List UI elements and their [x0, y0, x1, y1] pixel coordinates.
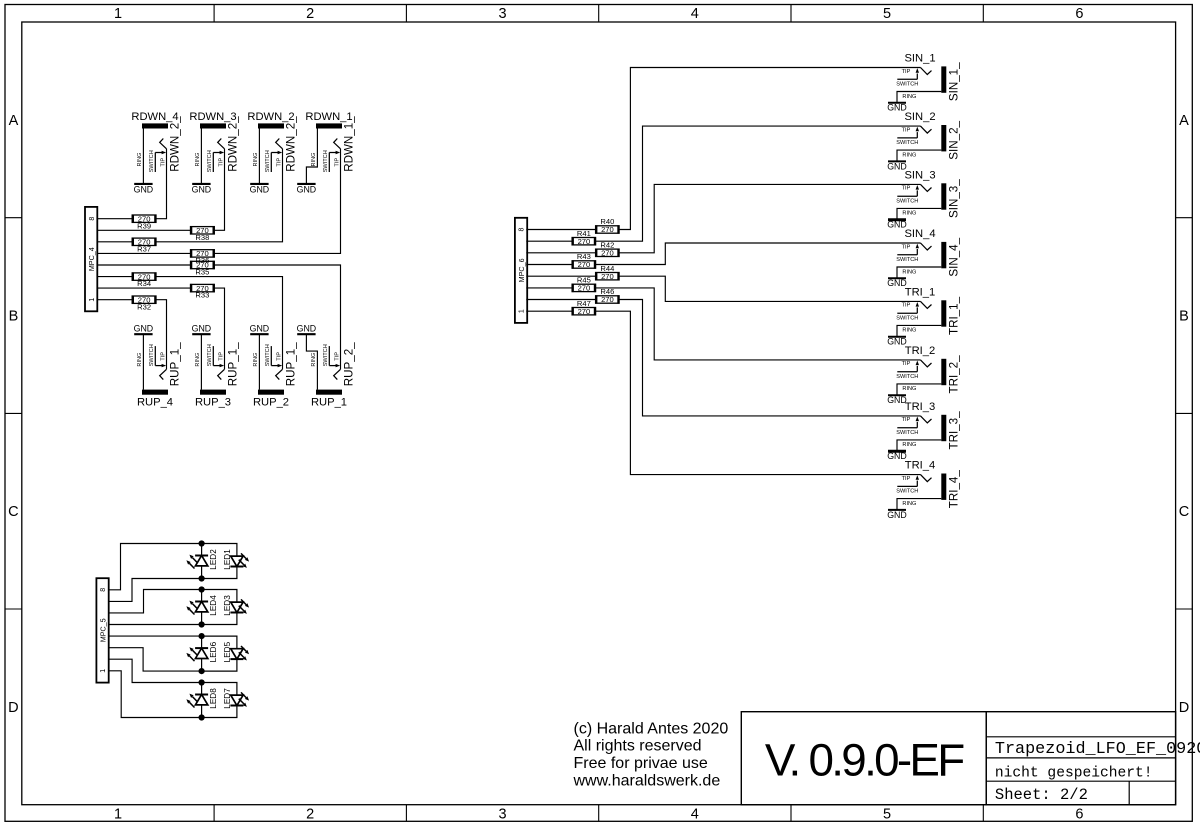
- svg-text:6: 6: [1075, 806, 1083, 822]
- svg-text:TRI_1: TRI_1: [905, 286, 935, 298]
- LED LED6: [186, 641, 218, 662]
- wire MPC_5 pin 1 to LED pair: [109, 671, 202, 718]
- svg-text:SWITCH: SWITCH: [323, 344, 329, 366]
- svg-text:RING: RING: [902, 211, 916, 217]
- svg-text:TRI_3: TRI_3: [905, 401, 935, 413]
- svg-text:TIP: TIP: [902, 361, 911, 367]
- wire MPC_5 pin 7 to LED pair: [109, 579, 202, 602]
- node LED pair 2 bottom junction: [199, 621, 205, 627]
- wire R37 to jack tip: [156, 149, 283, 242]
- svg-text:LED4: LED4: [209, 595, 218, 616]
- svg-text:SWITCH: SWITCH: [896, 489, 918, 495]
- svg-text:RING: RING: [253, 353, 259, 367]
- svg-text:270: 270: [138, 214, 151, 223]
- svg-text:270: 270: [138, 272, 151, 281]
- wire R34 to jack tip: [156, 277, 283, 370]
- svg-text:270: 270: [196, 284, 209, 293]
- svg-text:R41: R41: [577, 229, 591, 238]
- wire R42 to jack: [619, 184, 920, 252]
- ground RDWN_1: [297, 183, 315, 185]
- svg-text:SWITCH: SWITCH: [207, 150, 213, 172]
- resistor R35: [191, 261, 215, 277]
- svg-text:SWITCH: SWITCH: [149, 344, 155, 366]
- svg-text:GND: GND: [250, 185, 270, 195]
- svg-text:LED6: LED6: [209, 641, 218, 662]
- svg-text:6: 6: [1075, 6, 1083, 22]
- wire MPC_4 pin 3 to R34: [97, 276, 132, 278]
- wire R32 to jack tip: [156, 300, 167, 370]
- wire R35 to jack tip: [214, 265, 340, 369]
- wire R44 to jack: [619, 276, 920, 301]
- resistor R39: [132, 214, 156, 230]
- LED LED1: [223, 549, 249, 570]
- svg-text:SWITCH: SWITCH: [896, 140, 918, 146]
- LED LED5: [223, 641, 249, 662]
- jack RDWN_2: [247, 111, 297, 195]
- wire R45 to jack: [596, 288, 921, 360]
- svg-text:C: C: [8, 504, 18, 520]
- svg-text:1: 1: [89, 298, 96, 302]
- title block right box: [986, 712, 1175, 805]
- wire MPC_5 pin 3 to LED pair: [109, 648, 202, 671]
- svg-text:SWITCH: SWITCH: [896, 257, 918, 263]
- svg-text:270: 270: [601, 225, 614, 234]
- jack TRI_1: [887, 286, 960, 346]
- svg-text:LED8: LED8: [209, 688, 218, 709]
- resistor R36: [191, 249, 215, 265]
- svg-text:D: D: [1179, 700, 1189, 716]
- title block version box: [741, 712, 986, 805]
- svg-text:LED3: LED3: [223, 595, 232, 616]
- svg-text:GND: GND: [134, 324, 154, 334]
- svg-text:R46: R46: [600, 287, 614, 296]
- wire MPC_4 pin 6 to R37: [97, 241, 132, 243]
- jack RDWN_4: [131, 111, 181, 195]
- resistor R40: [596, 217, 620, 234]
- svg-text:270: 270: [578, 284, 591, 293]
- svg-text:GND: GND: [297, 185, 317, 195]
- svg-text:270: 270: [578, 260, 591, 269]
- svg-text:TIP: TIP: [218, 158, 224, 167]
- svg-text:270: 270: [196, 226, 209, 235]
- svg-text:TRI_4: TRI_4: [905, 460, 935, 472]
- svg-text:SWITCH: SWITCH: [265, 344, 271, 366]
- svg-text:TIP: TIP: [334, 352, 340, 361]
- wire MPC_5 pin 5 to LED pair: [109, 624, 202, 626]
- wire MPC_6 pin 7 to R41: [526, 240, 572, 242]
- jack TRI_3: [887, 401, 960, 461]
- resistor R33: [191, 284, 215, 300]
- svg-text:R42: R42: [600, 241, 614, 250]
- svg-text:B: B: [1179, 309, 1189, 325]
- wire LED LED4 vertical: [201, 590, 203, 602]
- svg-text:www.haraldswerk.de: www.haraldswerk.de: [573, 773, 721, 790]
- svg-text:4: 4: [691, 806, 699, 822]
- LED LED3: [223, 595, 249, 616]
- resistor R34: [132, 272, 156, 288]
- svg-text:MPC_4: MPC_4: [87, 247, 96, 271]
- svg-text:TIP: TIP: [160, 158, 166, 167]
- svg-text:RUP_1_: RUP_1_: [285, 342, 298, 386]
- wire MPC_6 pin 8 to R40: [526, 229, 595, 231]
- ground TRI_4: [888, 509, 906, 511]
- svg-text:4: 4: [691, 6, 699, 22]
- svg-text:SWITCH: SWITCH: [207, 344, 213, 366]
- wire LED LED8 vertical: [201, 683, 203, 695]
- svg-text:270: 270: [138, 238, 151, 247]
- svg-text:LED1: LED1: [223, 549, 232, 570]
- svg-text:SWITCH: SWITCH: [265, 150, 271, 172]
- svg-text:SIN_4: SIN_4: [904, 228, 935, 240]
- wire MPC_4 pin 2 to R33: [97, 287, 190, 289]
- ground SIN_2: [888, 160, 906, 162]
- svg-text:1: 1: [114, 6, 122, 22]
- svg-text:TIP: TIP: [902, 69, 911, 75]
- LED LED4: [186, 595, 218, 616]
- svg-text:TRI_2: TRI_2: [905, 345, 935, 357]
- svg-text:SWITCH: SWITCH: [149, 150, 155, 172]
- wire R39 to jack tip: [156, 149, 167, 219]
- wire MPC_6 pin 3 to R45: [526, 287, 572, 289]
- node LED pair 4 bottom junction: [199, 714, 205, 720]
- resistor R41: [572, 229, 596, 246]
- svg-text:2: 2: [306, 806, 314, 822]
- ground RDWN_3: [192, 183, 210, 185]
- svg-text:RING: RING: [902, 328, 916, 334]
- svg-text:nicht gespeichert!: nicht gespeichert!: [995, 766, 1153, 782]
- frame column dividers: [213, 5, 215, 23]
- ground TRI_1: [888, 336, 906, 338]
- wire MPC_6 pin 5 to R43: [526, 264, 572, 266]
- svg-text:270: 270: [578, 237, 591, 246]
- wire MPC_6 pin 2 to R46: [526, 299, 595, 301]
- resistor R44: [596, 264, 620, 281]
- resistor R43: [572, 252, 596, 269]
- connector MPC_5: [96, 578, 108, 682]
- svg-text:R40: R40: [600, 217, 614, 226]
- wire MPC_5 pin 6 to LED pair: [109, 590, 202, 613]
- node LED pair 1 top junction: [199, 540, 205, 546]
- svg-text:C: C: [1179, 504, 1189, 520]
- wire R38 to jack tip: [214, 149, 224, 231]
- svg-text:TIP: TIP: [276, 352, 282, 361]
- wire MPC_4 pin 1 to R32: [97, 299, 132, 301]
- ground RUP_4: [134, 333, 152, 335]
- svg-text:LED5: LED5: [223, 641, 232, 662]
- jack TRI_2: [887, 345, 960, 405]
- wire MPC_4 pin 4 to R35: [97, 264, 190, 266]
- svg-text:RING: RING: [311, 353, 317, 367]
- svg-text:RING: RING: [902, 152, 916, 158]
- svg-text:SWITCH: SWITCH: [323, 150, 329, 172]
- wire MPC_6 pin 1 to R47: [526, 310, 572, 312]
- ground TRI_2: [888, 394, 906, 396]
- svg-text:Free for privae use: Free for privae use: [574, 755, 708, 772]
- ground RDWN_4: [134, 183, 152, 185]
- svg-text:R43: R43: [577, 252, 591, 261]
- node LED pair 2 top junction: [199, 586, 205, 592]
- ground RUP_3: [192, 333, 210, 335]
- wire R46 to jack: [619, 300, 920, 416]
- wire MPC_5 pin 2 to LED pair: [109, 659, 202, 682]
- svg-text:RING: RING: [902, 501, 916, 507]
- svg-text:GND: GND: [887, 510, 907, 520]
- node LED pair 3 bottom junction: [199, 668, 205, 674]
- svg-text:GND: GND: [192, 324, 212, 334]
- svg-text:270: 270: [601, 295, 614, 304]
- svg-text:270: 270: [601, 272, 614, 281]
- svg-text:SWITCH: SWITCH: [896, 430, 918, 436]
- svg-text:5: 5: [883, 806, 891, 822]
- svg-text:RING: RING: [195, 353, 201, 367]
- wire R47 to jack: [596, 311, 921, 474]
- svg-text:SIN_1: SIN_1: [904, 53, 935, 65]
- svg-text:TIP: TIP: [160, 352, 166, 361]
- svg-text:B: B: [9, 309, 19, 325]
- svg-text:270: 270: [196, 249, 209, 258]
- node LED pair 3 top junction: [199, 633, 205, 639]
- svg-text:SIN_2_: SIN_2_: [948, 120, 961, 159]
- wire LED pair 2 branch: [202, 590, 237, 603]
- ground SIN_4: [888, 277, 906, 279]
- svg-text:SIN_4_: SIN_4_: [948, 237, 961, 276]
- resistor R32: [132, 295, 156, 311]
- svg-text:RDWN_2_: RDWN_2_: [227, 116, 240, 172]
- svg-text:A: A: [1179, 113, 1189, 129]
- svg-text:TRI_3_: TRI_3_: [948, 411, 961, 450]
- svg-text:D: D: [8, 700, 18, 716]
- svg-text:RING: RING: [311, 153, 317, 167]
- jack SIN_4: [887, 228, 960, 288]
- svg-text:TRI_1_: TRI_1_: [948, 296, 961, 335]
- svg-text:1: 1: [114, 806, 122, 822]
- svg-text:8: 8: [519, 227, 526, 231]
- svg-text:MPC_5: MPC_5: [99, 618, 108, 642]
- svg-text:A: A: [9, 113, 19, 129]
- svg-text:TIP: TIP: [902, 186, 911, 192]
- ground TRI_3: [888, 450, 906, 453]
- svg-text:RDWN_2_: RDWN_2_: [285, 116, 298, 172]
- LED LED2: [186, 549, 218, 570]
- svg-text:GND: GND: [250, 324, 270, 334]
- node LED pair 1 bottom junction: [199, 575, 205, 581]
- svg-text:V. 0.9.0-EF: V. 0.9.0-EF: [765, 734, 964, 785]
- wire MPC_6 pin 4 to R44: [526, 275, 595, 277]
- svg-text:8: 8: [89, 217, 96, 221]
- svg-text:8: 8: [100, 588, 107, 592]
- wire LED pair 4 branch: [202, 683, 237, 696]
- ground RDWN_2: [250, 183, 268, 185]
- jack SIN_1: [887, 53, 960, 113]
- wire R33 to jack tip: [214, 288, 224, 369]
- svg-text:Sheet: 2/2: Sheet: 2/2: [995, 786, 1088, 804]
- svg-text:RING: RING: [902, 442, 916, 448]
- resistor R45: [572, 276, 596, 293]
- resistor R47: [572, 299, 596, 316]
- jack SIN_2: [887, 111, 960, 171]
- wire LED LED6 vertical: [201, 636, 203, 648]
- svg-text:SWITCH: SWITCH: [896, 374, 918, 380]
- svg-text:RING: RING: [137, 353, 143, 367]
- svg-text:R47: R47: [577, 299, 591, 308]
- svg-text:TIP: TIP: [902, 127, 911, 133]
- svg-text:TRI_4_: TRI_4_: [948, 470, 961, 509]
- svg-text:3: 3: [498, 6, 506, 22]
- svg-text:RUP_2: RUP_2: [253, 396, 289, 408]
- wire LED pair 3 branch: [202, 636, 237, 649]
- resistor R37: [132, 238, 156, 254]
- connector MPC_6: [515, 218, 527, 323]
- node LED pair 4 top junction: [199, 679, 205, 685]
- svg-text:270: 270: [578, 307, 591, 316]
- svg-text:SIN_3: SIN_3: [904, 169, 935, 181]
- svg-text:TIP: TIP: [334, 158, 340, 167]
- LED LED7: [223, 688, 249, 709]
- svg-text:(c) Harald Antes 2020: (c) Harald Antes 2020: [574, 720, 729, 737]
- LED LED8: [186, 688, 218, 709]
- svg-text:All rights reserved: All rights reserved: [574, 738, 702, 755]
- svg-text:270: 270: [601, 249, 614, 258]
- wire LED LED2 vertical: [201, 544, 203, 556]
- svg-text:RING: RING: [902, 269, 916, 275]
- svg-text:R44: R44: [600, 264, 614, 273]
- wire MPC_5 pin 4 to LED pair: [109, 635, 202, 637]
- svg-text:TIP: TIP: [902, 476, 911, 482]
- wire MPC_4 pin 7 to R38: [97, 229, 190, 231]
- wire MPC_4 pin 8 to R39: [97, 218, 132, 220]
- svg-text:TRI_2_: TRI_2_: [948, 355, 961, 394]
- svg-text:RUP_4: RUP_4: [137, 396, 173, 408]
- svg-text:RUP_3: RUP_3: [195, 396, 231, 408]
- svg-text:270: 270: [196, 261, 209, 270]
- svg-text:RING: RING: [902, 386, 916, 392]
- ground SIN_1: [888, 102, 906, 104]
- jack RDWN_3: [189, 111, 239, 195]
- svg-text:SIN_3_: SIN_3_: [948, 179, 961, 218]
- ground SIN_3: [888, 218, 906, 221]
- title block copyright text: [573, 720, 729, 789]
- wire MPC_5 pin 8 to LED pair: [109, 544, 202, 590]
- jack RDWN_1: [297, 111, 356, 195]
- svg-text:5: 5: [883, 6, 891, 22]
- svg-text:1: 1: [100, 669, 107, 673]
- svg-text:TIP: TIP: [902, 417, 911, 423]
- svg-text:1: 1: [519, 309, 526, 313]
- svg-text:270: 270: [138, 295, 151, 304]
- svg-text:RDWN_2_: RDWN_2_: [169, 116, 182, 172]
- svg-text:GND: GND: [297, 324, 317, 334]
- svg-text:SWITCH: SWITCH: [896, 198, 918, 204]
- resistor R46: [596, 287, 620, 304]
- svg-text:Trapezoid_LFO_EF_0920: Trapezoid_LFO_EF_0920: [995, 740, 1200, 759]
- svg-text:SWITCH: SWITCH: [896, 81, 918, 87]
- wire MPC_4 pin 5 to R36: [97, 252, 190, 254]
- svg-text:RING: RING: [195, 153, 201, 167]
- svg-text:MPC_6: MPC_6: [517, 258, 526, 282]
- wire R43 to jack: [596, 243, 921, 265]
- jack RUP_3: [192, 324, 240, 409]
- svg-text:RUP_1_: RUP_1_: [227, 342, 240, 386]
- jack RUP_4: [134, 324, 182, 409]
- svg-text:RUP_1: RUP_1: [311, 396, 347, 408]
- svg-text:TIP: TIP: [902, 303, 911, 309]
- svg-text:LED2: LED2: [209, 549, 218, 570]
- svg-text:RUP_2_: RUP_2_: [343, 342, 356, 386]
- wire MPC_6 pin 6 to R42: [526, 252, 595, 254]
- svg-text:RDWN_1_: RDWN_1_: [343, 116, 356, 172]
- svg-text:RUP_1_: RUP_1_: [169, 342, 182, 386]
- svg-text:SWITCH: SWITCH: [896, 315, 918, 321]
- ground RUP_2: [250, 333, 268, 335]
- svg-text:RING: RING: [902, 94, 916, 100]
- jack TRI_4: [887, 460, 960, 520]
- wire R40 to jack: [619, 68, 920, 230]
- svg-text:TIP: TIP: [902, 244, 911, 250]
- jack RUP_2: [250, 324, 298, 409]
- svg-text:GND: GND: [192, 185, 212, 195]
- svg-text:2: 2: [306, 6, 314, 22]
- wire LED pair 1 branch: [202, 544, 237, 557]
- connector MPC_4: [85, 207, 97, 311]
- resistor R42: [596, 241, 620, 258]
- svg-text:SIN_1_: SIN_1_: [948, 62, 961, 101]
- svg-text:R45: R45: [577, 276, 591, 285]
- svg-text:3: 3: [498, 806, 506, 822]
- svg-text:SIN_2: SIN_2: [904, 111, 935, 123]
- svg-text:RING: RING: [253, 153, 259, 167]
- svg-text:LED7: LED7: [223, 688, 232, 709]
- svg-text:RING: RING: [137, 153, 143, 167]
- ground RUP_1: [297, 333, 315, 335]
- resistor R38: [191, 226, 215, 242]
- svg-text:TIP: TIP: [276, 158, 282, 167]
- jack RUP_1: [297, 324, 356, 409]
- svg-text:TIP: TIP: [218, 352, 224, 361]
- wire R41 to jack: [596, 126, 921, 241]
- svg-text:GND: GND: [134, 185, 154, 195]
- jack SIN_3: [887, 169, 960, 229]
- wire R36 to jack tip: [214, 149, 340, 254]
